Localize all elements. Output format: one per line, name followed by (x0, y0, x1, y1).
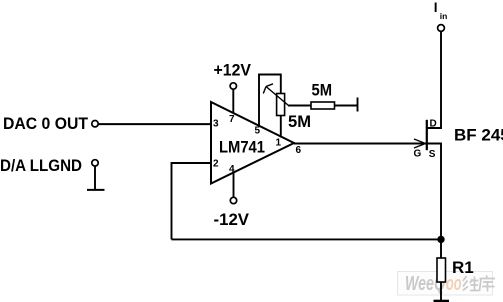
wire D/A LLGND to ground (94, 166, 96, 189)
junction node (437, 236, 444, 243)
svg-text:3: 3 (213, 119, 219, 130)
transistor gate arrowhead (414, 139, 426, 144)
wire junction to R1 (440, 239, 442, 258)
ground R1 (434, 300, 450, 302)
svg-text:I: I (434, 0, 438, 15)
wire pin 4 to -12V (233, 172, 235, 197)
svg-text:7: 7 (229, 114, 235, 125)
svg-text:BF 245: BF 245 (454, 126, 503, 145)
svg-text:2: 2 (213, 159, 219, 170)
wire DAC 0 OUT to pin 3 (98, 123, 211, 125)
wire op-amp output to JFET gate (294, 143, 426, 145)
transistor drain tap (427, 31, 441, 128)
wire pin 2 stub (172, 162, 212, 164)
terminal -12V (230, 197, 236, 203)
transistor Q1 BF 245 channel (426, 120, 428, 150)
terminal I_in (438, 25, 445, 32)
svg-text:1: 1 (276, 138, 282, 149)
svg-text:-12V: -12V (214, 210, 250, 229)
wire R1 to ground (440, 282, 442, 300)
terminal bar (357, 98, 359, 112)
watermark glyph 库 (480, 276, 496, 292)
wire potentiometer bottom to pin 1 (280, 116, 282, 138)
svg-text:S: S (429, 149, 436, 160)
svg-text:LM741: LM741 (219, 139, 265, 157)
svg-text:5: 5 (255, 126, 261, 137)
terminal +12V (230, 83, 236, 89)
wire feedback vertical (171, 162, 173, 239)
wire pin 5 to potentiometer top (259, 75, 281, 127)
wire wiper to resistor 5M (288, 105, 311, 107)
svg-text:DAC 0 OUT: DAC 0 OUT (3, 114, 89, 133)
svg-text:5M: 5M (312, 81, 333, 100)
svg-text:D/A LLGND: D/A LLGND (0, 156, 82, 175)
resistor R1 body (437, 258, 446, 282)
watermark glyph 维 (463, 276, 479, 291)
op-amp U1 LM741 (211, 102, 294, 184)
svg-text:R1: R1 (452, 258, 474, 277)
watermark box (398, 272, 496, 296)
terminal D/A LLGND (92, 160, 98, 166)
resistor 5M body (311, 102, 335, 109)
svg-text:in: in (440, 11, 448, 21)
svg-text:+12V: +12V (214, 61, 252, 80)
wire +12V to pin 7 (232, 89, 234, 113)
potentiometer RP 5M body (277, 94, 285, 116)
svg-text:D: D (430, 119, 437, 130)
transistor source tap (427, 144, 441, 240)
potentiometer wiper arrow (266, 87, 289, 106)
svg-text:6: 6 (296, 145, 302, 156)
wire feedback horizontal (172, 238, 442, 240)
svg-text:G: G (414, 149, 422, 160)
terminal DAC 0 OUT (92, 121, 98, 127)
wire resistor 5M to end bar (335, 105, 358, 107)
ground D/A LLGND (87, 189, 105, 191)
svg-text:5M: 5M (288, 112, 311, 131)
